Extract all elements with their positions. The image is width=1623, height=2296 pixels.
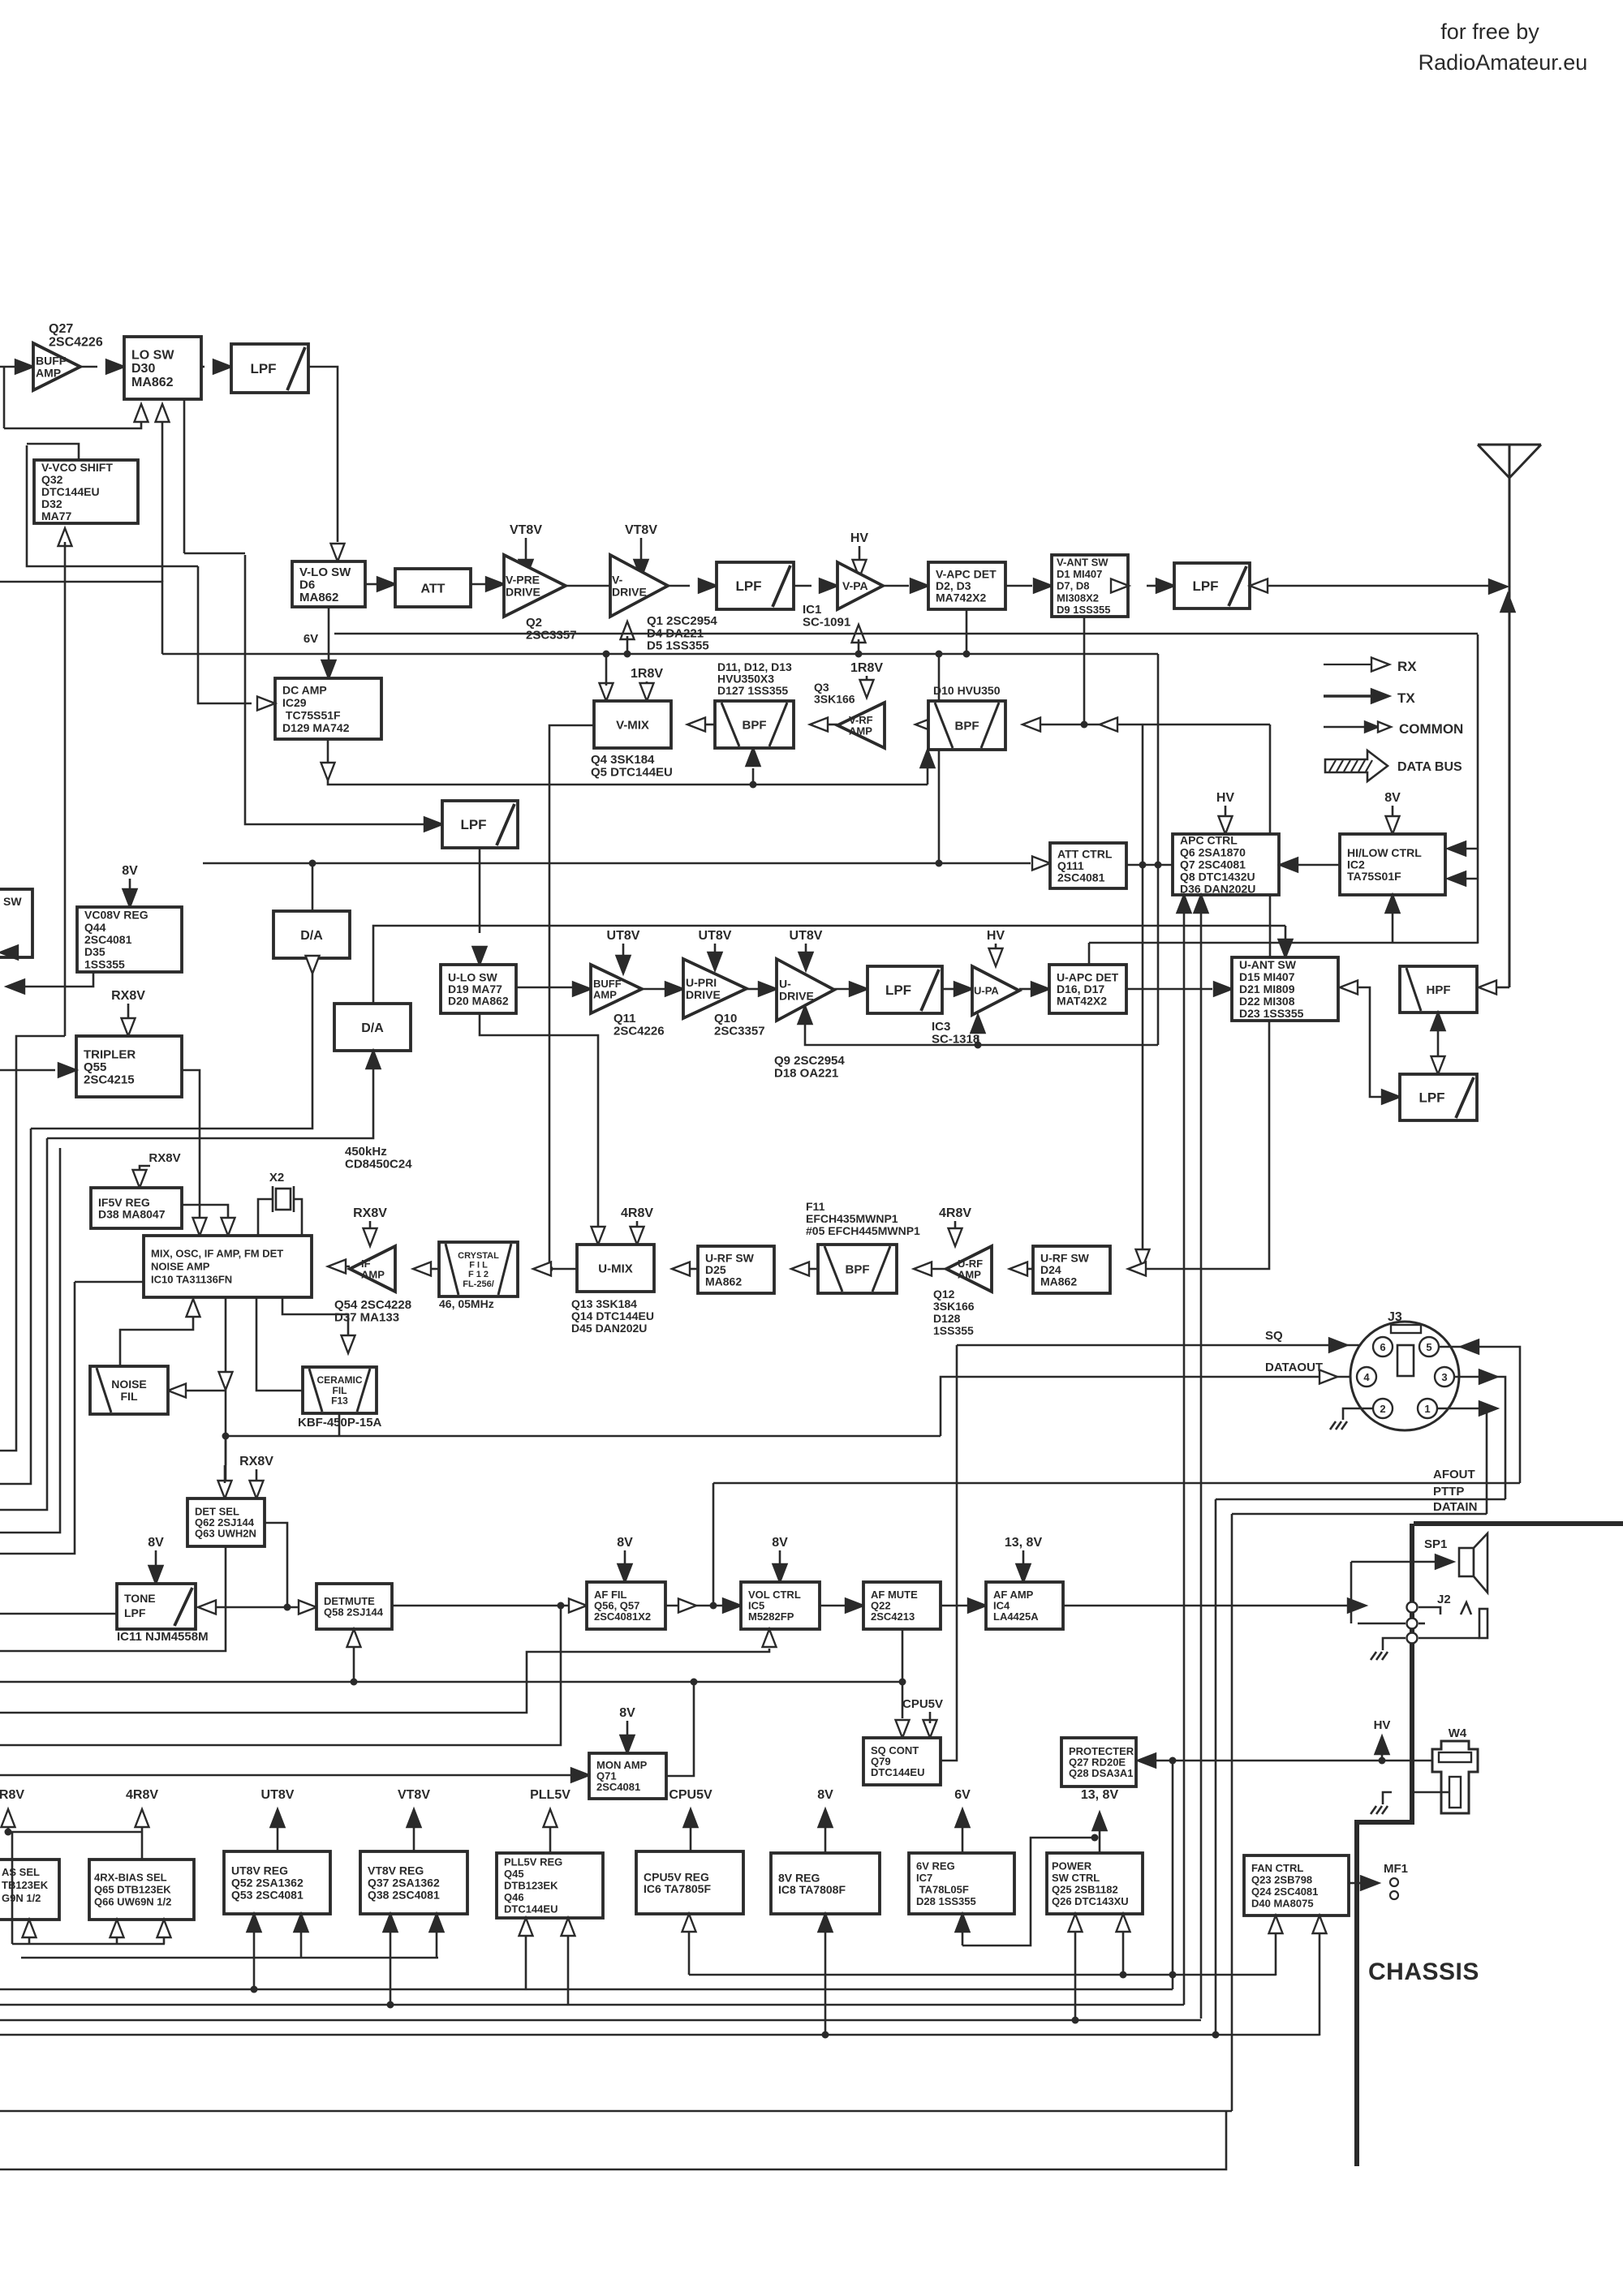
- wire LPF output to V-LO SW: [308, 367, 338, 542]
- arrowhead up into V-DRIVE bottom: [621, 621, 635, 639]
- wire long top border line: [0, 1774, 1, 1777]
- wire SP1 feed: [1351, 1561, 1436, 1563]
- wire IF5V out to MIX OSC: [182, 1205, 228, 1221]
- block HI LOW CTRL IC2 TA75S01F: [1340, 834, 1445, 895]
- svg-text:PLL5V REGQ45DTB123EKQ46DTC144E: PLL5V REGQ45DTB123EKQ46DTC144EU: [504, 1856, 562, 1915]
- svg-text:8V: 8V: [122, 864, 138, 878]
- wire bus y2490: [0, 2019, 1201, 2022]
- junction bus 2508a: [822, 2032, 829, 2039]
- block PLL5V REG Q45 Q46: [497, 1853, 603, 1918]
- wire bus y2602: [0, 2110, 1232, 2113]
- wire DETMUTE bottom: [353, 1644, 355, 1682]
- wire AF source line: [392, 1605, 568, 1607]
- arrowhead into PROTECTER right: [1138, 1754, 1156, 1768]
- svg-text:for free by: for free by: [1440, 19, 1539, 44]
- junction U-PA bias: [975, 1042, 982, 1049]
- wire long vertical v1427: [1157, 654, 1160, 1045]
- filter LPF U chain: [867, 966, 942, 1013]
- arrowhead up into MIX OSC bottom: [187, 1299, 200, 1317]
- filter LPF to antenna: [1174, 563, 1250, 608]
- arrowhead into BPF V1 from V-RF AMP: [810, 718, 828, 732]
- svg-text:8V: 8V: [148, 1536, 164, 1550]
- block U-LO SW D19 MA77 D20 MA862: [441, 965, 516, 1013]
- wire CRYSTAL to IF AMP: [431, 1268, 439, 1271]
- svg-text:VT8V: VT8V: [510, 523, 542, 537]
- arrowhead into U-MIX right: [672, 1262, 690, 1276]
- wire AF MUTE to AF AMP: [941, 1605, 967, 1607]
- power 8V into VC08V REG: [122, 864, 138, 907]
- wire detector long line y1770: [226, 1435, 941, 1438]
- wire bus y2413: [21, 1957, 438, 1959]
- thick chassis line top: [1414, 1521, 1623, 1526]
- arrowhead DATAOUT into J3: [1319, 1370, 1337, 1384]
- wire MIX OSC left input: [75, 1281, 144, 1283]
- arrowhead up into BPF V2: [921, 750, 935, 767]
- arrowhead into U-PRI: [665, 982, 683, 996]
- arrowhead into U-RF SW1: [791, 1262, 809, 1276]
- wire U-ANT SW bottom drop: [1146, 1021, 1269, 1269]
- wire SQ vertical: [941, 1345, 957, 1761]
- power VT8V output: [398, 1788, 430, 1851]
- arrowhead into IF AMP: [413, 1262, 431, 1276]
- legend TX arrow: [1324, 690, 1415, 707]
- wire U-PA to U-APC DET: [1019, 988, 1031, 991]
- svg-text:LPF: LPF: [124, 1606, 146, 1619]
- block IF5V REG D38 MA8047: [91, 1188, 182, 1228]
- arrowhead up into V-PA bottom: [852, 625, 866, 643]
- svg-text:TB123EK: TB123EK: [2, 1879, 49, 1891]
- svg-text:LPF: LPF: [1192, 578, 1218, 594]
- arrowhead down into V-LO SW: [331, 544, 345, 561]
- amplifier IF AMP Q54: [350, 1246, 395, 1292]
- wire into DC AMP from left: [198, 566, 252, 703]
- power 13.8V output: [1081, 1788, 1119, 1853]
- junction detmute drop: [351, 1679, 358, 1686]
- arrowhead down into U-ANT SW top: [1279, 939, 1293, 957]
- filter NOISE FIL: [90, 1366, 168, 1414]
- svg-text:UT8V: UT8V: [607, 929, 640, 943]
- svg-text:W4: W4: [1449, 1726, 1467, 1740]
- block ATT CTRL Q111 2SC4081: [1050, 843, 1126, 888]
- junction att feed2: [936, 860, 943, 867]
- svg-text:6: 6: [1380, 1341, 1385, 1353]
- wire V-LO SW to ATT: [365, 583, 377, 586]
- wire vertical 879: [712, 1483, 715, 1606]
- wire VOL to AF MUTE: [820, 1605, 845, 1607]
- junction bus 2471: [387, 2001, 394, 2009]
- wire BPF V1 bias vertical: [752, 768, 755, 785]
- wire LO SW bottom line x200: [161, 419, 164, 582]
- wire VC08V out to left block: [16, 972, 93, 987]
- wire nested left w2: [0, 1129, 31, 1484]
- arrowhead 6V into DC AMP: [322, 660, 336, 678]
- svg-text:V-RFAMP: V-RFAMP: [849, 714, 873, 737]
- wire left edge line y717: [0, 582, 162, 654]
- thick chassis line vertical: [1357, 1524, 1412, 2166]
- wire stub rx bias arrow 2: [163, 1937, 166, 1944]
- block U-RF SW D24 MA862: [1033, 1246, 1110, 1293]
- junction V-MIX bias: [603, 651, 610, 658]
- svg-text:D10 HVU350: D10 HVU350: [933, 684, 1001, 697]
- svg-text:DATA BUS: DATA BUS: [1397, 760, 1462, 774]
- block V-LO SW D6 MA862: [292, 561, 365, 607]
- svg-text:1R8V: 1R8V: [631, 667, 663, 681]
- wire J2 tip wire: [1419, 1607, 1440, 1615]
- wire BPF V2 to V-RF AMP: [928, 724, 933, 726]
- power 4R8V into U-MIX: [621, 1206, 653, 1245]
- power 4R8V output of bias sel: [126, 1788, 158, 1860]
- arrowhead into V-PRE DRIVE: [486, 578, 504, 591]
- wire LO SW drop x227: [183, 399, 186, 553]
- wire V-RF AMP to BPF V1: [828, 724, 837, 726]
- arrowhead out of V-ANT SW: [1111, 579, 1129, 593]
- power RX8V into DET SEL: [239, 1455, 273, 1498]
- block ATT: [395, 569, 471, 607]
- svg-text:Q9 2SC2954D18 OA221: Q9 2SC2954D18 OA221: [774, 1054, 845, 1080]
- arrowhead down into DET SEL 1: [218, 1481, 232, 1498]
- svg-text:CHASSIS: CHASSIS: [1368, 1958, 1479, 1985]
- wire V bias rail y806: [162, 653, 1158, 656]
- arrowhead down into CERAMIC FIL: [342, 1335, 355, 1353]
- arrowhead into J2 tip: [1348, 1599, 1366, 1613]
- svg-text:VT8V: VT8V: [625, 523, 657, 537]
- power 8V into TONE LPF: [148, 1536, 164, 1584]
- block DC AMP IC29 TC75S51F D129 MA742: [275, 678, 381, 739]
- arrowhead into BPF U: [914, 1262, 932, 1276]
- filter BPF V1: [715, 701, 794, 748]
- arrowhead into U-ANT SW: [1214, 982, 1232, 996]
- svg-text:U-PRIDRIVE: U-PRIDRIVE: [686, 976, 721, 1001]
- svg-text:AFOUT: AFOUT: [1433, 1468, 1475, 1481]
- power UT8V into U-PRI: [699, 929, 732, 970]
- filter LPF U2: [1400, 1074, 1477, 1120]
- wire bus y2434: [689, 1974, 1276, 1976]
- wire J2 middle: [1358, 1623, 1406, 1625]
- arrowhead into AF AMP: [968, 1599, 986, 1613]
- fan MF1 symbol: [1384, 1862, 1408, 1899]
- wire stub cpu5v reg: [688, 1932, 691, 1975]
- arrowhead into V-MIX: [687, 718, 705, 732]
- wire nested left w1: [0, 1036, 65, 1451]
- wire stub power sw left: [1074, 1932, 1077, 2020]
- wire protecter feed: [1154, 1760, 1412, 1762]
- svg-text:1: 1: [1424, 1403, 1430, 1415]
- svg-text:IC11 NJM4558M: IC11 NJM4558M: [117, 1630, 209, 1644]
- svg-text:D/A: D/A: [300, 929, 323, 943]
- wire V-APC DET to V-ANT SW: [1005, 585, 1032, 587]
- filter HPF: [1400, 966, 1477, 1013]
- svg-text:HV: HV: [1374, 1718, 1391, 1732]
- partial block 4TX-BIAS SEL at left edge: [0, 1860, 59, 1920]
- arrowhead up into DA2: [367, 1051, 381, 1068]
- connector J3 pin 6: [1373, 1337, 1393, 1357]
- wire 6v reg to 13.8v node: [962, 1838, 1095, 1946]
- svg-text:V-PREDRIVE: V-PREDRIVE: [506, 574, 540, 599]
- wire pin3 to PTTP: [1454, 1377, 1505, 1499]
- wire antenna switch to BPF V2: [1040, 724, 1270, 726]
- power 1R8V into V-MIX: [631, 667, 663, 701]
- wire stub pll5v reg left: [525, 1936, 527, 1989]
- power 8V into AF FIL: [617, 1536, 633, 1582]
- arrowhead out of AF FIL: [678, 1599, 696, 1613]
- wire pin5 to AFOUT: [1439, 1347, 1520, 1483]
- arrowhead into MON AMP: [571, 1769, 589, 1782]
- arrowhead down into U-LO SW: [473, 947, 487, 965]
- power HV into V-PA: [850, 531, 869, 578]
- svg-text:13, 8V: 13, 8V: [1081, 1788, 1119, 1802]
- junction det line: [222, 1433, 230, 1440]
- arrowhead into LO SW: [106, 360, 124, 374]
- junction 13.8v node: [1091, 1834, 1099, 1842]
- svg-text:LPF: LPF: [460, 817, 486, 832]
- block TRIPLER Q55 2SC4215: [76, 1036, 182, 1097]
- wire U-RF SW2 to U-RF AMP: [1027, 1268, 1033, 1271]
- wire stub tx bias arrow: [28, 1937, 31, 1944]
- wire stub ut8v reg left: [253, 1932, 256, 1989]
- power 8V output: [817, 1788, 833, 1853]
- block V-MIX Q4 Q5: [594, 701, 671, 748]
- wire TONE LPF input: [0, 1613, 117, 1615]
- power UT8V into U BUFF: [607, 929, 640, 974]
- svg-text:MF1: MF1: [1384, 1862, 1408, 1876]
- junction DA1 feed: [309, 860, 316, 867]
- wire HI LOW bottom output: [1392, 909, 1394, 943]
- arrowhead into antenna LPF: [1156, 579, 1174, 593]
- arrowhead into LPF2: [424, 818, 442, 832]
- wire stub vt8v reg right: [436, 1932, 438, 1958]
- junction bus 2434 b: [1169, 1971, 1177, 1979]
- wire LPF to V-PA: [794, 585, 811, 587]
- block TONE LPF IC11: [117, 1584, 196, 1629]
- wire F AMP to MIX OSC: [346, 1266, 350, 1268]
- arrowhead down into MIX OSC 2: [222, 1218, 235, 1236]
- wire W4 feed: [1412, 1760, 1433, 1762]
- svg-text:RX8V: RX8V: [353, 1206, 387, 1220]
- svg-text:RX8V: RX8V: [239, 1455, 273, 1468]
- wire J2 sleeve ground: [1383, 1638, 1406, 1650]
- block 8V REG IC8 TA7808F: [771, 1853, 880, 1914]
- filter BPF U: [818, 1245, 897, 1293]
- arrowhead into U-RF AMP: [1010, 1262, 1027, 1276]
- wire U-RF AMP to BPF U: [932, 1268, 946, 1271]
- svg-text:LPF: LPF: [250, 361, 276, 376]
- junction tone line: [284, 1604, 291, 1611]
- arrowhead SQ into J3: [1329, 1339, 1347, 1352]
- wire nested left w3: [0, 1138, 47, 1510]
- power CPU5V output: [669, 1788, 712, 1851]
- arrowhead into AF MUTE: [846, 1599, 863, 1613]
- power 8V into VOL CTRL: [772, 1536, 788, 1582]
- wire DETMUTE to TONE: [216, 1606, 299, 1609]
- arrowhead v1408 onto RX line: [1136, 1249, 1150, 1267]
- wire U-RF SW1 to U-MIX: [690, 1268, 698, 1271]
- block AF FIL Q56 Q57 2SC4081X2: [587, 1582, 665, 1629]
- wire U BUFF to U-PRI: [642, 988, 665, 991]
- block D A converter 2: [334, 1004, 411, 1051]
- block MON AMP Q71 2SC4081: [589, 1753, 666, 1799]
- amplifier V-PA IC1: [837, 562, 883, 609]
- arrowhead into U-ANT SW from HPF: [1340, 981, 1358, 995]
- svg-text:8V: 8V: [817, 1788, 833, 1802]
- arrowhead into LPF from antenna line: [1250, 579, 1268, 593]
- svg-text:UT8V: UT8V: [790, 929, 823, 943]
- arrowhead into fan MF1: [1361, 1877, 1379, 1890]
- wire BPF V2 bias vertical: [927, 768, 929, 785]
- wire left edge vertical stub: [3, 367, 6, 428]
- wire V-APC DET bias vertical: [966, 609, 968, 654]
- arrowhead up into APC CTRL b1: [1177, 895, 1191, 913]
- svg-text:6V: 6V: [954, 1788, 971, 1802]
- svg-text:3: 3: [1441, 1371, 1447, 1383]
- svg-text:TONE: TONE: [124, 1592, 156, 1605]
- wire protecter drop: [1172, 1761, 1174, 1989]
- svg-text:CPU5V: CPU5V: [902, 1697, 943, 1711]
- svg-text:U-ANT SWD15 MI407D21 MI809D22: U-ANT SWD15 MI407D21 MI809D22 MI308D23 1…: [1239, 958, 1304, 1020]
- arrowhead VC08V to left: [6, 980, 24, 994]
- arrowhead into V-APC DET: [911, 579, 928, 593]
- wire antenna to HPF: [1496, 987, 1509, 989]
- wire buff amp to LO SW: [80, 366, 97, 368]
- arrowhead mid on RX line: [1100, 718, 1117, 732]
- arrowhead down out of DA1: [306, 956, 320, 974]
- power 1R8V into V-RF AMP: [850, 661, 883, 698]
- wire U-LO SW right output to BUFF: [516, 987, 578, 989]
- wire U-MIX to CRYSTAL: [551, 1268, 577, 1271]
- wire TRIPLER out to MIX OSC: [182, 1070, 200, 1221]
- svg-text:8V: 8V: [619, 1706, 635, 1720]
- wire sq cont feed2: [929, 1712, 932, 1723]
- svg-text:4R8V: 4R8V: [621, 1206, 653, 1220]
- wire SP1 vertical: [1350, 1562, 1353, 1623]
- wire DET SEL feed: [225, 1436, 227, 1465]
- arrowhead HV up: [1375, 1736, 1389, 1754]
- svg-text:UT8V: UT8V: [261, 1788, 295, 1802]
- arrowhead into APC CTRL right: [1280, 858, 1298, 872]
- block PROTECTER Q27 RD20E Q28 DSA3A1: [1061, 1738, 1136, 1786]
- wire V-MIX bias from rail: [605, 654, 608, 686]
- filter CRYSTAL FIL F11 F12 FL-256: [439, 1242, 518, 1296]
- filter BPF V2: [928, 701, 1005, 750]
- power UT8V into U-DRIVE: [790, 929, 823, 970]
- junction bus 2508b: [1212, 2032, 1220, 2039]
- svg-text:U-MIX: U-MIX: [598, 1262, 633, 1275]
- arrowhead into ATT CTRL: [1032, 857, 1050, 871]
- connector W4: [1432, 1726, 1478, 1813]
- arrowhead up into U-DRIVE bottom: [799, 1006, 812, 1024]
- arrowhead down into SQ CONT 1: [896, 1720, 910, 1738]
- wire bus line y2151: [0, 1606, 561, 1745]
- wire CERAMIC out: [338, 1413, 341, 1436]
- block D A converter 1: [273, 911, 350, 958]
- wire AF mute bottom vertical: [902, 1629, 904, 1718]
- svg-text:BPF: BPF: [743, 718, 767, 732]
- arrowhead into U BUFF AMP: [573, 982, 591, 996]
- wire pin2 to ground: [1343, 1408, 1373, 1420]
- wire 450kHz feed: [47, 1065, 373, 1138]
- junction af vertical: [710, 1602, 717, 1610]
- arrowhead into AF FIL: [569, 1599, 587, 1613]
- arrowhead into DC AMP: [257, 697, 275, 711]
- block APC CTRL Q6 Q7 Q8 D36: [1173, 834, 1279, 896]
- wire MON AMP input: [0, 1774, 571, 1777]
- arrowhead down into SQ CONT 2: [923, 1720, 937, 1738]
- power 8V into MON AMP: [619, 1706, 635, 1753]
- arrowhead into ATT: [377, 578, 395, 591]
- wire J2 sleeve wire: [1419, 1637, 1479, 1640]
- arrowhead down DC AMP out: [321, 763, 335, 780]
- junction 4R8V: [5, 1829, 12, 1836]
- block FAN CTRL Q23 Q24 D40: [1244, 1855, 1349, 1915]
- wire HI LOW to APC: [1295, 864, 1340, 866]
- wire stub ut8v reg right: [300, 1932, 303, 1958]
- arrowhead into U LPF: [850, 982, 867, 996]
- junction af mute drop: [899, 1679, 906, 1686]
- block MIX OSC IF AMP FM DET NOISE AMP IC10 TA31136FN: [144, 1236, 312, 1297]
- wire ATT CTRL to APC CTRL: [1126, 864, 1173, 866]
- svg-text:COMMON: COMMON: [1399, 721, 1463, 737]
- connector J3 pin 2: [1373, 1399, 1393, 1418]
- wire 4R8V link: [8, 1831, 142, 1834]
- wire DATAOUT riser: [941, 1377, 1357, 1436]
- svg-text:BPF: BPF: [955, 719, 979, 733]
- block U-ANT SW D15 D21 D22 D23: [1232, 957, 1338, 1021]
- arrowhead up into HPF bottom: [1431, 1013, 1445, 1030]
- svg-text:13, 8V: 13, 8V: [1005, 1536, 1043, 1550]
- wire stub power sw right: [1122, 1932, 1125, 1975]
- wire DA2 into U-ANT SW top: [1285, 926, 1287, 943]
- junction HV: [1379, 1757, 1386, 1765]
- wire 8V rail long line: [334, 633, 1478, 635]
- wire pin1 to DATAIN: [1437, 1408, 1487, 1514]
- arrowhead into HPF right: [1479, 981, 1496, 995]
- arrowhead down on det line: [219, 1372, 233, 1390]
- wire bus y2452: [0, 1989, 1173, 1991]
- wire 6V stem: [328, 607, 330, 662]
- wire RX line corner down: [1269, 724, 1272, 957]
- arrowhead into MIX OSC right: [328, 1260, 346, 1274]
- wire MIX OSC to NOISE FIL: [0, 1297, 226, 1651]
- block U-MIX Q13 Q14 D45: [577, 1245, 654, 1292]
- block POWER SW CTRL Q25 Q26: [1047, 1853, 1143, 1914]
- wire DET SEL out: [265, 1523, 287, 1607]
- block V-APC DET D2 D3 MA742X2: [928, 562, 1005, 609]
- svg-text:SP1: SP1: [1424, 1537, 1447, 1551]
- svg-text:HV: HV: [1216, 791, 1235, 805]
- wire DA2 top out: [373, 926, 1285, 1004]
- arrowhead into LPF: [213, 360, 231, 374]
- ground at J2: [1371, 1652, 1388, 1660]
- svg-text:DETMUTEQ58 2SJ144: DETMUTEQ58 2SJ144: [324, 1595, 384, 1619]
- wire HPF LPF link: [1437, 1027, 1440, 1059]
- filter LPF mid: [442, 801, 518, 848]
- junction BPF V1 bias: [750, 781, 757, 789]
- wire BPF U to U-RF SW1: [809, 1268, 818, 1271]
- wire DATAIN line: [1232, 1513, 1487, 1516]
- wire NOISE FIL out: [120, 1316, 193, 1366]
- arrowhead down into MIX OSC 1: [193, 1218, 207, 1236]
- arrowhead into BPF V2 from antenna switch: [1022, 718, 1040, 732]
- wire VOL CTRL bottom feed: [0, 1649, 769, 1713]
- svg-text:HPF: HPF: [1427, 983, 1451, 997]
- amplifier U-PA IC3: [972, 966, 1019, 1015]
- wire MIX OSC to CERAMIC left: [256, 1297, 303, 1391]
- svg-text:DATAOUT: DATAOUT: [1265, 1361, 1323, 1374]
- wire bus y2674: [0, 2111, 1226, 2169]
- wire ATT to V-PRE DRIVE: [471, 583, 485, 586]
- filter LPF after V-DRIVE: [717, 562, 794, 609]
- wire V-DRIVE bias vertical: [626, 636, 629, 654]
- amplifier U-PRI DRIVE Q10: [683, 959, 747, 1018]
